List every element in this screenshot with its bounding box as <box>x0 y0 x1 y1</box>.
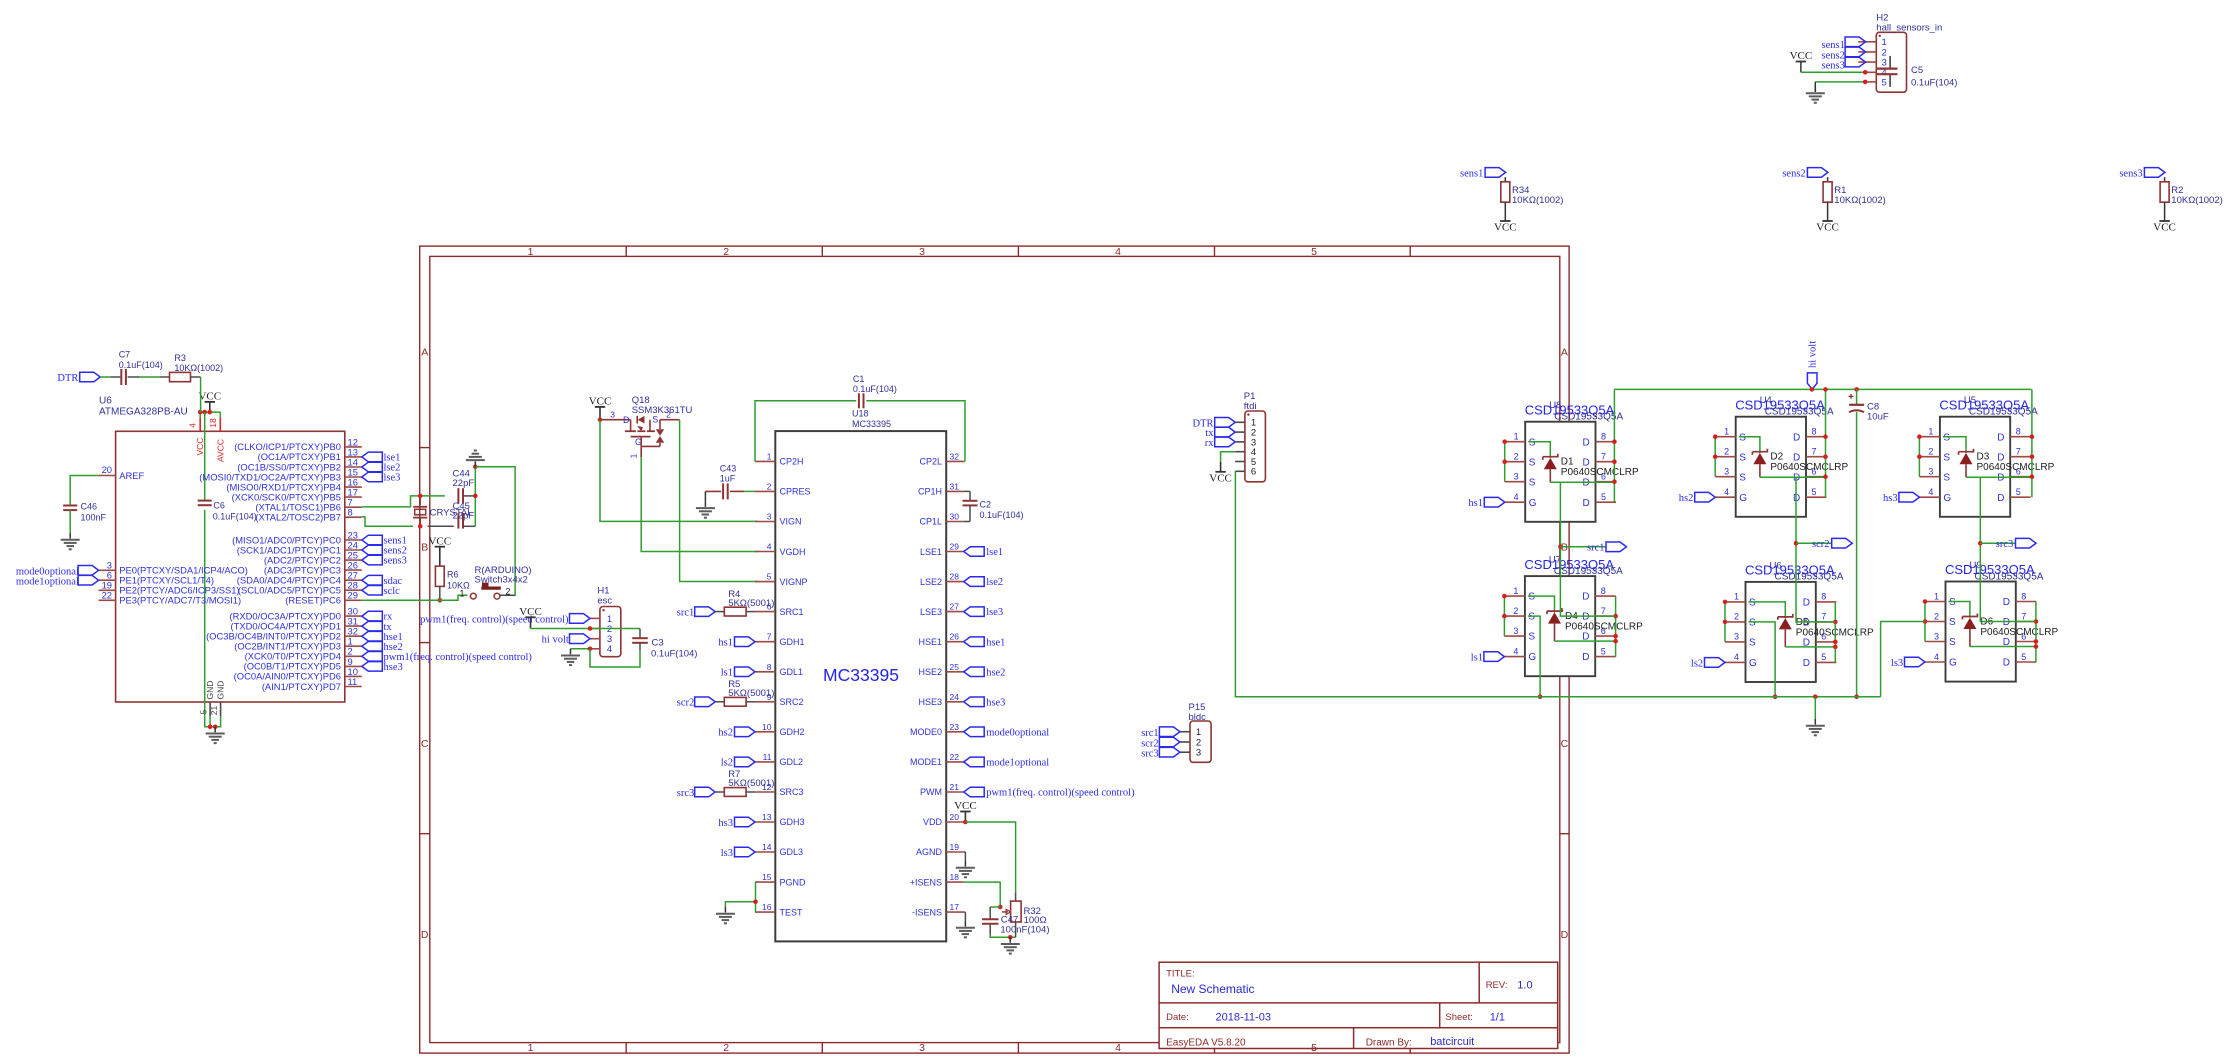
svg-text:REV:: REV: <box>1486 980 1508 991</box>
svg-text:8: 8 <box>2021 591 2026 601</box>
svg-text:CSD19533Q5A: CSD19533Q5A <box>1554 566 1623 577</box>
svg-text:10: 10 <box>762 722 772 732</box>
svg-text:hs3: hs3 <box>1883 493 1898 504</box>
junction dot PGND <box>753 899 758 904</box>
svg-text:5: 5 <box>1812 487 1817 497</box>
net flag hse1 at HSE1 <box>964 637 1006 648</box>
net flag lse3 <box>362 472 401 483</box>
svg-text:CP2H: CP2H <box>780 457 804 467</box>
svg-text:src3: src3 <box>1996 539 2014 550</box>
wire crystal to C45 <box>428 525 454 527</box>
svg-text:hi volt: hi volt <box>1808 341 1819 368</box>
svg-text:VCC: VCC <box>519 606 542 618</box>
net flag hse2 at HSE2 <box>964 667 1006 678</box>
U6 pin 20 AREF <box>99 464 145 481</box>
svg-text:PWM: PWM <box>920 787 942 797</box>
svg-text:VCC: VCC <box>198 391 221 403</box>
svg-text:S: S <box>1739 432 1746 443</box>
svg-text:D: D <box>1803 598 1810 609</box>
svg-text:hall_sensors_in: hall_sensors_in <box>1876 23 1942 34</box>
svg-text:5KΩ(5001): 5KΩ(5001) <box>728 778 774 789</box>
svg-text:100nF: 100nF <box>81 513 107 523</box>
svg-text:TEST: TEST <box>780 907 804 917</box>
svg-text:hs1: hs1 <box>1468 498 1483 509</box>
svg-text:1: 1 <box>1928 427 1933 437</box>
diode D3 P0640SCMCLRP <box>1943 437 2055 478</box>
svg-text:src1: src1 <box>1587 543 1605 554</box>
wire PB6 to C44 row <box>362 496 445 507</box>
svg-text:AVCC: AVCC <box>215 439 225 462</box>
svg-text:CSD19533Q5A: CSD19533Q5A <box>1554 412 1623 423</box>
svg-text:1uF: 1uF <box>720 474 736 484</box>
svg-text:sens3: sens3 <box>384 556 407 567</box>
svg-text:18: 18 <box>208 418 218 428</box>
ground above crystal loop <box>466 451 485 467</box>
net flag hs2 <box>1679 492 1715 504</box>
net flag rx <box>362 611 393 622</box>
svg-text:8: 8 <box>1601 586 1606 596</box>
junction dots U9 drains <box>2034 619 2039 649</box>
wire C43 to CPRES <box>730 490 755 492</box>
svg-text:hse2: hse2 <box>986 667 1005 678</box>
resistor R1 pull-up sens2 <box>1782 168 1885 234</box>
svg-text:0.1uF(104): 0.1uF(104) <box>853 384 897 394</box>
net flag lse1 <box>362 452 401 464</box>
svg-text:6: 6 <box>1251 467 1256 478</box>
svg-text:D: D <box>1583 437 1590 448</box>
junction dots U4 drains <box>1823 434 1828 479</box>
svg-text:5: 5 <box>1311 246 1317 258</box>
svg-text:4: 4 <box>1514 492 1519 502</box>
wire C46 to ground <box>69 510 71 533</box>
svg-text:U6: U6 <box>99 396 112 407</box>
capacitor C46 <box>63 502 106 523</box>
junction dots U6 ground <box>208 725 218 730</box>
svg-text:G: G <box>1749 658 1757 669</box>
wire U5 diode to drain <box>1966 476 2032 478</box>
svg-text:D: D <box>1582 592 1589 603</box>
svg-text:2: 2 <box>666 410 671 420</box>
H1 pins 1-4 <box>590 614 612 655</box>
net flag lse2 <box>362 462 401 473</box>
junction dot Q18 VCC <box>598 417 603 422</box>
svg-text:8: 8 <box>2016 427 2021 437</box>
wire C44 to node <box>464 495 476 497</box>
svg-text:D: D <box>1583 498 1590 509</box>
svg-text:0.1uF(104): 0.1uF(104) <box>1911 77 1957 88</box>
svg-text:0.1uF(104): 0.1uF(104) <box>980 510 1024 520</box>
wire VDD to R32 <box>965 822 1015 901</box>
svg-text:D: D <box>1793 432 1800 443</box>
transistor low-side FET phase1 U7 CSD19533Q5A <box>1504 555 1623 677</box>
wire C47 bottom <box>990 924 1015 938</box>
svg-text:27: 27 <box>950 602 960 612</box>
svg-text:7: 7 <box>1601 452 1606 462</box>
svg-text:1: 1 <box>1513 586 1518 596</box>
junction dots U7 sources <box>1502 594 1507 619</box>
svg-text:22: 22 <box>950 752 960 762</box>
title block <box>1159 962 1558 1048</box>
VCC above Q18 <box>589 396 612 420</box>
svg-text:1: 1 <box>459 589 464 599</box>
net flag pwm1 at PWM <box>964 787 1135 798</box>
capacitor C3 <box>632 629 697 660</box>
svg-text:CP1L: CP1L <box>919 517 942 527</box>
net flag tx at P1 <box>1205 427 1235 439</box>
svg-text:VDD: VDD <box>923 817 943 827</box>
svg-text:Date:: Date: <box>1166 1012 1189 1023</box>
svg-text:GDH1: GDH1 <box>780 637 805 647</box>
svg-text:sens3: sens3 <box>2119 168 2142 179</box>
svg-text:hs3: hs3 <box>718 818 733 829</box>
wire U7 drain jumper <box>1615 596 1617 657</box>
junction dot -ISENS node <box>1008 935 1013 940</box>
net flag pwm1 at H1 pin1 <box>420 614 590 626</box>
svg-text:GDH3: GDH3 <box>780 817 805 827</box>
svg-text:VIGN: VIGN <box>780 517 802 527</box>
svg-text:10uF: 10uF <box>1867 412 1889 423</box>
svg-text:VCC: VCC <box>1816 222 1839 234</box>
svg-text:S: S <box>1529 437 1536 448</box>
svg-text:S: S <box>1528 612 1535 623</box>
svg-text:0.1uF(104): 0.1uF(104) <box>213 511 257 521</box>
svg-text:7: 7 <box>2021 611 2026 621</box>
junction dot H1 pin4 <box>588 647 593 652</box>
svg-text:20: 20 <box>102 464 112 475</box>
wire R6 to reset row <box>439 586 441 600</box>
svg-text:4: 4 <box>1934 652 1939 662</box>
svg-text:GDL3: GDL3 <box>780 847 804 857</box>
resistor R2 pull-up sens3 <box>2119 168 2222 234</box>
svg-text:3: 3 <box>919 1042 925 1054</box>
svg-text:1: 1 <box>528 246 534 258</box>
svg-text:GDH2: GDH2 <box>780 727 805 737</box>
svg-text:GND: GND <box>205 681 215 700</box>
svg-text:(XTAL2/TOSC2)PB7: (XTAL2/TOSC2)PB7 <box>255 512 341 523</box>
svg-text:ATMEGA328PB-AU: ATMEGA328PB-AU <box>99 407 188 418</box>
svg-text:ls1: ls1 <box>1471 653 1483 664</box>
junction dot U7 source rail <box>1538 694 1543 699</box>
wire U7 source jumper <box>1503 596 1505 636</box>
svg-text:28: 28 <box>950 572 960 582</box>
svg-text:D: D <box>623 415 630 425</box>
svg-text:D3: D3 <box>1977 452 1990 463</box>
net flag src1 at P15 <box>1141 727 1180 739</box>
svg-text:LSE1: LSE1 <box>920 547 942 557</box>
svg-text:sens1: sens1 <box>1460 168 1483 179</box>
svg-text:11: 11 <box>348 676 358 687</box>
svg-text:4: 4 <box>1115 1042 1121 1054</box>
svg-text:VCC: VCC <box>428 535 451 547</box>
net flag lse1 at LSE1 <box>964 547 1003 558</box>
junction dot scr2 <box>1794 541 1799 546</box>
svg-text:D: D <box>1803 658 1810 669</box>
svg-text:3: 3 <box>1928 467 1933 477</box>
junction dot VDD <box>963 820 968 825</box>
svg-text:B: B <box>421 542 428 554</box>
svg-text:scr2: scr2 <box>1812 539 1830 550</box>
svg-text:1.0: 1.0 <box>1517 980 1532 992</box>
svg-text:A: A <box>1561 347 1568 359</box>
net flag src3 at P15 <box>1141 747 1180 759</box>
junction dots U9 sources <box>1923 599 1928 624</box>
crystal node wires <box>419 496 421 526</box>
svg-text:U18: U18 <box>852 409 869 419</box>
svg-text:src1: src1 <box>677 607 695 618</box>
svg-text:2: 2 <box>1934 611 1939 621</box>
svg-text:S: S <box>1943 452 1950 463</box>
net flag sens1 at H2 <box>1822 37 1866 51</box>
MCU U6 ATMEGA328PB-AU body <box>99 396 345 703</box>
svg-text:HSE1: HSE1 <box>918 637 942 647</box>
svg-text:CSD19533Q5A: CSD19533Q5A <box>1969 407 2038 418</box>
wire phase node src1 <box>1560 482 1615 616</box>
svg-text:S: S <box>1529 477 1536 488</box>
svg-text:C5: C5 <box>1911 65 1923 76</box>
svg-text:SRC2: SRC2 <box>780 697 804 707</box>
wire C1 to CP2L <box>866 401 965 462</box>
net flag rx at P1 <box>1205 437 1235 449</box>
svg-text:Drawn By:: Drawn By: <box>1366 1037 1412 1048</box>
svg-text:22: 22 <box>102 590 112 601</box>
pushbutton R(ARDUINO) Switch3x4x2 <box>459 565 531 599</box>
capacitor C44 <box>453 469 475 504</box>
svg-text:2: 2 <box>1928 447 1933 457</box>
svg-text:3: 3 <box>767 512 772 522</box>
svg-text:pwm1(freq. control)(speed cont: pwm1(freq. control)(speed control) <box>384 652 533 663</box>
svg-text:R3: R3 <box>174 353 186 363</box>
svg-text:29: 29 <box>950 542 960 552</box>
svg-text:4: 4 <box>1724 487 1729 497</box>
wire CP2H to C1 <box>755 401 856 462</box>
wire U6 source to ground rail <box>1749 622 1776 697</box>
U6 bottom pins 5/21 GND <box>199 681 226 717</box>
wire Q18 gate to VGDH <box>641 457 758 552</box>
svg-text:5: 5 <box>1601 646 1606 656</box>
svg-text:C: C <box>421 738 429 750</box>
wire ground to H2 pin5 <box>1815 81 1865 83</box>
svg-text:1: 1 <box>628 453 638 458</box>
junction dots hi volt rail <box>1810 387 1859 392</box>
capacitor C45 <box>453 501 475 528</box>
svg-text:VIGNP: VIGNP <box>780 577 808 587</box>
svg-text:S: S <box>1943 472 1950 483</box>
wire U9 drain jumper <box>2035 602 2037 663</box>
svg-text:5: 5 <box>199 709 209 714</box>
wire hi volt rail <box>1614 388 2032 390</box>
svg-text:+ISENS: +ISENS <box>910 877 942 887</box>
wire C45 right <box>464 467 476 527</box>
svg-text:4: 4 <box>1928 487 1933 497</box>
diode D4 P0640SCMCLRP <box>1528 596 1643 641</box>
junction dots U5 sources <box>1917 434 1922 459</box>
svg-text:15: 15 <box>762 872 772 882</box>
svg-text:D: D <box>2003 597 2010 608</box>
svg-text:3: 3 <box>1734 632 1739 642</box>
junction dot H2 pin5 <box>1863 80 1868 85</box>
svg-text:(AIN1/PTCXY)PD7: (AIN1/PTCXY)PD7 <box>262 681 341 692</box>
wire +ISENS to C47 <box>990 907 1000 919</box>
svg-text:S: S <box>1739 452 1746 463</box>
svg-text:ls1: ls1 <box>721 668 733 679</box>
svg-text:29: 29 <box>348 590 358 601</box>
U18 pins 1-32 <box>755 451 964 917</box>
svg-text:ftdi: ftdi <box>1244 401 1257 412</box>
wire U7 diode to drain <box>1555 640 1616 642</box>
junction dots U4 sources <box>1713 434 1718 459</box>
svg-text:25: 25 <box>950 662 960 672</box>
wire U5 source jumper <box>1918 437 1920 477</box>
wire P1 pin4 to VCC <box>1221 452 1236 472</box>
svg-text:1: 1 <box>767 451 772 461</box>
capacitor C8 <box>1849 389 1889 422</box>
svg-text:5: 5 <box>1601 492 1606 502</box>
svg-text:VCC: VCC <box>2153 222 2176 234</box>
svg-text:DTR: DTR <box>57 373 78 384</box>
svg-text:C7: C7 <box>119 349 131 359</box>
wire C8 to ground rail <box>1856 412 1858 697</box>
svg-text:5KΩ(5001): 5KΩ(5001) <box>728 688 774 699</box>
svg-text:C2: C2 <box>980 500 992 510</box>
wire R32 bottom <box>1015 922 1017 937</box>
resistor R34 pull-up sens1 <box>1460 168 1563 234</box>
svg-text:bldc: bldc <box>1189 712 1207 723</box>
net flag ls1 <box>1471 652 1505 664</box>
svg-text:scr2: scr2 <box>677 698 695 709</box>
ground at source rail <box>1806 697 1825 736</box>
svg-text:C1: C1 <box>853 374 865 384</box>
svg-text:C3: C3 <box>652 637 664 648</box>
svg-text:5: 5 <box>1882 77 1887 88</box>
net flag sens2 at PC1 <box>362 545 407 556</box>
wire Q18 source to VIGNP <box>680 420 758 582</box>
svg-text:VCC: VCC <box>589 396 612 408</box>
svg-text:HSE3: HSE3 <box>918 697 942 707</box>
svg-text:2: 2 <box>1513 606 1518 616</box>
svg-text:rx: rx <box>1205 438 1214 449</box>
ground at -ISENS <box>956 912 975 937</box>
VCC below P1 <box>1209 472 1232 485</box>
svg-text:LSE2: LSE2 <box>920 577 942 587</box>
connector H2 hall_sensors_in body <box>1876 13 1942 93</box>
wire U6 source jumper <box>1724 602 1726 642</box>
junction dot +ISENS <box>998 905 1003 910</box>
wiper arrow to R32 <box>1002 909 1011 914</box>
svg-text:31: 31 <box>950 481 960 491</box>
svg-text:R2: R2 <box>2171 185 2183 196</box>
net flag pwm1 at PD4 <box>362 652 533 663</box>
svg-text:5: 5 <box>1821 652 1826 662</box>
net flag ls1 at GDL1 <box>721 667 755 679</box>
svg-text:GND: GND <box>216 681 226 700</box>
wire VCC rail through U6 <box>204 412 206 717</box>
svg-text:2: 2 <box>1514 452 1519 462</box>
svg-text:7: 7 <box>1812 447 1817 457</box>
net flag hse3 <box>362 662 403 673</box>
junction dot H1 pin2 <box>588 626 593 631</box>
svg-text:CSD19533Q5A: CSD19533Q5A <box>1765 407 1834 418</box>
svg-text:C6: C6 <box>213 500 225 510</box>
wire P1 pin6 to source rail <box>1235 471 1540 696</box>
svg-text:S: S <box>1528 592 1535 603</box>
diode D1 P0640SCMCLRP <box>1528 442 1639 483</box>
net flag mode0optional <box>16 566 99 578</box>
svg-text:7: 7 <box>2016 447 2021 457</box>
net flag sdac <box>362 575 403 586</box>
wire ground loop to switch <box>475 467 515 596</box>
svg-text:4: 4 <box>767 542 772 552</box>
svg-text:S: S <box>1943 432 1950 443</box>
svg-text:2: 2 <box>723 1042 729 1054</box>
capacitor C47 <box>982 914 1050 935</box>
wire VCC to U6 pins <box>200 412 220 417</box>
capacitor C1 <box>853 374 897 409</box>
connector H1 esc body <box>597 586 620 657</box>
svg-text:3: 3 <box>1724 467 1729 477</box>
net flag sens1 at PC0 <box>362 535 407 546</box>
net flag sens3 at H2 <box>1822 57 1866 71</box>
net flag hse3 at HSE3 <box>964 697 1006 708</box>
transistor high-side FET phase2 U4 CSD19533Q5A <box>1715 395 1834 517</box>
svg-text:CP1H: CP1H <box>918 487 942 497</box>
resistor R7 and flag src3 <box>677 769 775 799</box>
junction dot C8 rail <box>1854 694 1859 699</box>
svg-text:8: 8 <box>1821 592 1826 602</box>
svg-text:SSM3K361TU: SSM3K361TU <box>632 405 693 416</box>
svg-text:24: 24 <box>950 692 960 702</box>
wire U8 diode to drain <box>1550 481 1614 483</box>
wire R3 to VCC node <box>191 377 201 412</box>
svg-text:5KΩ(5001): 5KΩ(5001) <box>728 598 774 609</box>
net flag scr2 at P15 <box>1141 737 1180 749</box>
svg-text:G: G <box>1943 493 1951 504</box>
junction dots at U6 VCC <box>198 410 212 415</box>
net flag sens2 at H2 <box>1822 47 1866 61</box>
junction dots U6 sources <box>1723 600 1728 625</box>
transistor Q18 SSM3K361TU <box>600 395 693 459</box>
svg-text:VCC: VCC <box>1494 222 1517 234</box>
ground at H1 pin4 <box>561 649 580 665</box>
svg-text:18: 18 <box>950 872 960 882</box>
svg-text:New Schematic: New Schematic <box>1171 982 1254 996</box>
svg-text:hs1: hs1 <box>718 638 733 649</box>
junction dot H2 pin4 <box>1863 70 1868 75</box>
wire U6 drain jumper <box>1834 602 1836 663</box>
svg-text:Sheet:: Sheet: <box>1445 1012 1472 1023</box>
connector P1 ftdi body <box>1244 391 1266 482</box>
svg-text:ls2: ls2 <box>721 758 733 769</box>
svg-text:10KΩ(1002): 10KΩ(1002) <box>2171 195 2222 206</box>
wire phase node src3 <box>1980 477 2035 621</box>
svg-text:1/1: 1/1 <box>1490 1011 1505 1023</box>
svg-text:2: 2 <box>1734 612 1739 622</box>
svg-text:8: 8 <box>1812 427 1817 437</box>
wire VCC to H1 pin2 and C3 <box>531 628 641 630</box>
wire DTR to C7 <box>100 376 120 378</box>
svg-text:S: S <box>1739 472 1746 483</box>
diode D6 P0640SCMCLRP <box>1949 602 2059 647</box>
VCC at H1 pin2 <box>519 606 542 629</box>
svg-text:VCC: VCC <box>195 438 205 456</box>
svg-text:7: 7 <box>767 632 772 642</box>
svg-text:VCC: VCC <box>1209 472 1232 484</box>
svg-text:hse1: hse1 <box>986 637 1005 648</box>
svg-text:PE3(PTCY/ADC7/T3/MOSI1): PE3(PTCY/ADC7/T3/MOSI1) <box>119 595 241 606</box>
svg-text:esc: esc <box>597 596 612 607</box>
wire U8 drain jumper to rail <box>1613 389 1615 502</box>
svg-text:S: S <box>1528 632 1535 643</box>
svg-text:3: 3 <box>1934 631 1939 641</box>
